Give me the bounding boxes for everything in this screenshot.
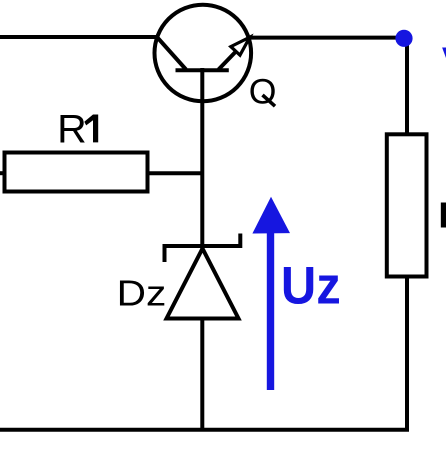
transistor Q emitter lead [219, 40, 248, 70]
zener diode Dz triangle [167, 249, 239, 319]
wire [0, 35, 160, 39]
resistor R1 body [5, 153, 148, 192]
wire [148, 171, 203, 175]
transistor Q base bar [176, 68, 229, 72]
svg-text:R: R [438, 194, 446, 235]
transistor Q emitter arrow [231, 37, 250, 55]
svg-text:Uz: Uz [281, 256, 341, 315]
svg-text:V: V [442, 37, 446, 96]
wire [200, 68, 204, 429]
resistor RL body [387, 134, 427, 276]
wire [0, 277, 407, 430]
wire [248, 36, 404, 40]
wire [0, 171, 5, 175]
Uz arrow head [252, 197, 290, 234]
wire [405, 38, 409, 136]
svg-text:Dz: Dz [117, 273, 167, 314]
svg-text:R: R [57, 107, 87, 151]
zener diode Dz cathode bar [165, 234, 241, 263]
node dot [395, 30, 412, 47]
transistor Q collector lead [157, 37, 187, 70]
transistor Q body [155, 5, 252, 102]
Uz arrow shaft [267, 228, 274, 390]
